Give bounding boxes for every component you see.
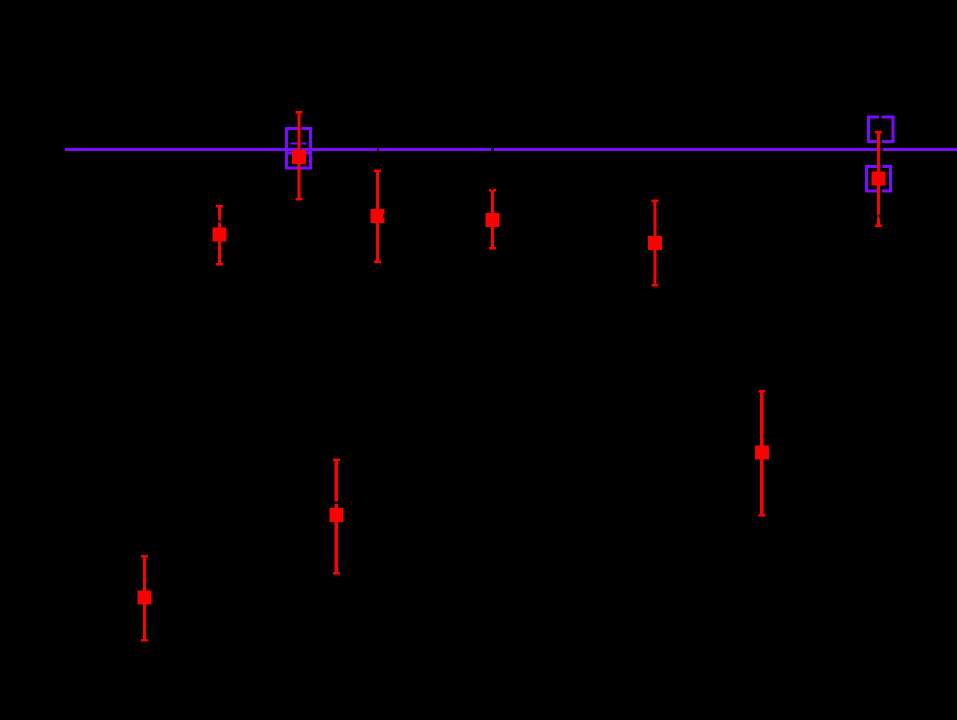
black notch right on lower square top edge xyxy=(306,142,309,146)
fit line (horizontal purple line y=1) xyxy=(65,148,957,151)
theory marker: upper purple open square at x=298 xyxy=(286,129,310,153)
theory marker: lower purple open square at x=298 xyxy=(286,144,310,168)
hidden black series bar crossing at x=301 xyxy=(300,127,301,155)
black notch left on lower square top edge xyxy=(288,142,291,146)
hidden black series bar at x=881 over squares and line xyxy=(879,115,882,119)
black gap above marker 4 xyxy=(334,502,338,505)
data point 2 x=219 xyxy=(213,205,227,266)
theory marker: lower purple open square at x=878 xyxy=(866,167,890,191)
data point 9 x=878 (inside purple squares) xyxy=(872,131,886,227)
black pinch on error line 9 xyxy=(877,215,878,218)
data point 7 x=655 xyxy=(648,200,662,287)
data point 4 x=336 xyxy=(329,458,343,574)
hidden black series bar crossing fit line at x=494 xyxy=(491,147,494,152)
data point 1 x=144 xyxy=(138,555,152,642)
data point 5 x=377 xyxy=(371,169,385,263)
hidden black series bar crossing fit line at x=378 xyxy=(377,147,379,152)
data point 6 x=492 xyxy=(485,189,499,250)
theory marker: upper purple open square at x=880 xyxy=(869,117,893,141)
data point 8 x=762 xyxy=(755,390,769,517)
black notch on right edge of marker 5 xyxy=(383,214,385,218)
data point 3 x=298 (inside purple squares) xyxy=(292,111,306,201)
black notch on top cap 6 xyxy=(491,189,493,190)
black gap above marker 2 xyxy=(218,220,222,222)
thinning of lower square top edge middle xyxy=(291,144,307,145)
